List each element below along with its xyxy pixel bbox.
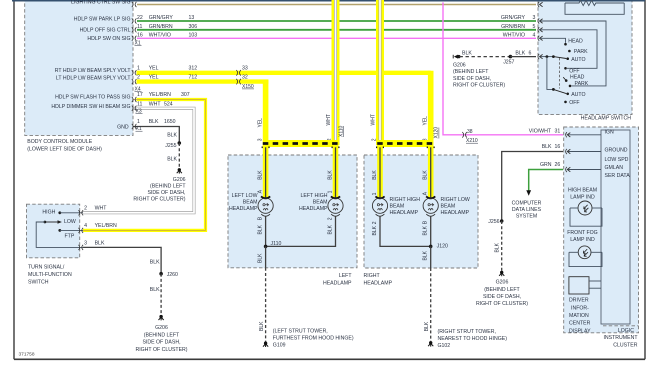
svg-text:HDLP SW FLASH TO PASS SIG: HDLP SW FLASH TO PASS SIG [55,95,130,101]
svg-text:YEL/BRN: YEL/BRN [95,223,117,229]
svg-text:WHT: WHT [326,114,332,125]
switch wiring pin 4 to HEAD deck1 [540,38,566,43]
wire BLK (left box to G109, dashed) [259,268,266,342]
cluster inner box [601,130,639,326]
body control module (BCM) box [25,0,133,153]
svg-text:GND: GND [117,124,129,130]
svg-text:RIGHT: RIGHT [364,273,381,279]
turn signal pin 4 YEL/BRN [79,223,118,233]
svg-text:YEL/BRN: YEL/BRN [149,92,171,98]
wire WHT (right high beam feed, highlighted) [371,0,380,145]
svg-text:BEAM: BEAM [243,200,258,206]
svg-text:(BEHIND LEFT: (BEHIND LEFT [150,184,186,190]
wire BLK (right box to G102, dashed) [424,268,431,341]
wire BLK (X110-2 to left high bulb) [327,145,335,198]
svg-text:YEL: YEL [149,75,159,81]
svg-text:HEADLAMP: HEADLAMP [390,210,419,216]
svg-text:17: 17 [137,92,143,98]
bulb right high beam headlamp [372,196,420,216]
svg-text:BLK: BLK [167,133,177,139]
junction J120 [429,243,448,249]
wire BLK (J120 to right box edge) [423,246,431,268]
svg-text:VIO/WHT: VIO/WHT [529,129,552,135]
svg-text:LOGIC: LOGIC [618,328,634,334]
svg-text:FTP: FTP [65,234,75,240]
svg-text:RT HDLP LW BEAM SPLY VOLT: RT HDLP LW BEAM SPLY VOLT [55,68,132,74]
switch deck 1 wiring (pin 3 to PARK deck2) [540,21,606,86]
svg-text:HEADLAMP: HEADLAMP [299,206,328,212]
svg-text:BEAM: BEAM [390,204,405,210]
svg-text:J255: J255 [165,143,176,149]
svg-text:YEL: YEL [423,116,429,126]
cluster pin serial data [566,157,631,179]
wire WHT 524 (high beam signal) [51,102,194,213]
svg-text:BLK: BLK [423,170,429,180]
wire BLK (X110-3 to left low bulb) [257,145,265,198]
svg-text:HEADLAMP: HEADLAMP [364,280,393,286]
wire BLK (left bulbs to J110) [257,216,335,246]
svg-text:HEADLAMP: HEADLAMP [229,206,258,212]
svg-text:RIGHT OF CLUSTER): RIGHT OF CLUSTER) [476,301,528,307]
svg-text:J120: J120 [437,243,448,249]
svg-text:NEAREST TO HOOD HINGE): NEAREST TO HOOD HINGE) [438,336,508,342]
svg-text:BLK: BLK [424,321,430,331]
svg-text:1650: 1650 [164,119,176,125]
wire YEL 712 (LT low beam supply) [56,75,268,85]
junction J260 [159,272,178,278]
svg-text:SYSTEM: SYSTEM [516,214,537,220]
ground G206 (behind left dash, turn signal) [135,315,187,353]
svg-text:(RIGHT STRUT TOWER,: (RIGHT STRUT TOWER, [438,329,496,335]
junction J255 [165,141,181,149]
svg-text:BEAM: BEAM [441,204,456,210]
connector label X1 (BCM) [135,40,142,46]
wire GRN/BRN 306 (hdlp off signal) [80,24,543,34]
wire BLK (J260 to G206, dashed) [150,274,161,316]
svg-text:WHT: WHT [149,102,162,108]
svg-text:MULTI-FUNCTION: MULTI-FUNCTION [28,272,72,278]
svg-text:524: 524 [164,102,173,108]
svg-text:(BEHIND LEFT: (BEHIND LEFT [453,69,489,75]
svg-text:307: 307 [181,92,190,98]
svg-text:2: 2 [372,221,378,224]
svg-text:G109: G109 [273,343,286,349]
svg-text:SIDE OF DASH,: SIDE OF DASH, [483,294,521,300]
turn signal / multi-function switch box [27,204,80,285]
junction J110 [264,241,282,248]
switch deck 2 contacts [563,74,589,106]
svg-text:LEFT: LEFT [339,273,353,279]
svg-text:HDLP SW PARK LP SIG: HDLP SW PARK LP SIG [74,17,131,23]
svg-text:HDLP SW ON SIG: HDLP SW ON SIG [87,36,130,42]
svg-text:4: 4 [84,223,87,229]
turn signal switch contacts [36,209,83,247]
svg-text:HIGH: HIGH [42,209,55,215]
svg-text:CLUSTER: CLUSTER [613,343,637,349]
svg-text:LEFT HIGH: LEFT HIGH [301,193,328,199]
svg-text:RIGHT LOW: RIGHT LOW [441,197,470,203]
svg-text:312: 312 [189,66,198,72]
svg-text:DATA LINES: DATA LINES [512,207,542,213]
junction J257 [503,55,514,66]
svg-text:(LOWER LEFT SIDE OF DASH): (LOWER LEFT SIDE OF DASH) [27,147,102,153]
svg-text:6: 6 [529,50,532,56]
svg-text:306: 306 [189,24,198,30]
svg-text:1: 1 [137,119,140,125]
svg-text:11: 11 [137,24,142,30]
svg-text:RIGHT OF CLUSTER): RIGHT OF CLUSTER) [135,347,187,353]
svg-text:2: 2 [371,138,377,141]
wire BLK 16 (cluster ground) [502,144,563,221]
wire YEL 312 (RT low beam supply) [55,66,431,76]
connector label X4 (BCM) [135,86,142,92]
svg-text:BLK: BLK [257,224,263,234]
bulb right low beam headlamp [423,196,470,216]
ground G109 (left strut tower) [263,328,354,348]
svg-text:BLK: BLK [423,225,429,235]
svg-text:16: 16 [137,32,143,38]
svg-text:G102: G102 [438,343,451,349]
svg-text:IGN: IGN [605,130,614,136]
wire VIO/WHT (from top, to cluster IGN) [443,2,563,135]
svg-text:BLK: BLK [149,119,159,125]
wire YEL vertical (RT low beam into X120) [423,71,440,146]
svg-text:J260: J260 [167,272,178,278]
headlamp switch box [538,0,632,122]
svg-text:YEL: YEL [149,66,159,72]
svg-text:BLK: BLK [515,50,525,56]
svg-text:BLK: BLK [167,157,177,163]
wire BLK 1650 (BCM ground) [117,119,179,143]
svg-text:PARK: PARK [575,81,589,87]
svg-text:1: 1 [137,66,140,72]
svg-text:INSTRUMENT: INSTRUMENT [603,335,638,341]
svg-text:FURTHEST FROM HOOD HINGE): FURTHEST FROM HOOD HINGE) [273,336,354,342]
wire BLK (J257 to switch pin 6) [510,50,542,59]
svg-text:GRN/GRY: GRN/GRY [501,15,526,21]
front fog indicator lamp [567,230,602,267]
ground G206 (behind left dash, cluster) [476,271,528,308]
svg-text:DISPLAY: DISPLAY [569,328,591,334]
svg-text:J110: J110 [271,241,282,247]
ground G206 (behind left dash, headlamp switch) [453,55,505,89]
svg-text:X110: X110 [338,125,344,137]
svg-text:HDLP DIMMER SW HI BEAM SIG: HDLP DIMMER SW HI BEAM SIG [51,104,130,110]
svg-text:BLK: BLK [259,321,265,331]
svg-text:BEAM: BEAM [313,200,328,206]
turn signal pin 3 BLK [79,241,105,250]
svg-text:WHT/VIO: WHT/VIO [149,32,171,38]
wire BLK (X120-3 to right low bulb) [423,145,431,198]
svg-text:YEL: YEL [257,118,263,128]
svg-text:2: 2 [84,205,87,211]
bulb left low beam headlamp [229,193,273,216]
svg-text:OFF: OFF [569,68,579,74]
wire YEL vertical (LT low beam into X110) [257,80,265,146]
svg-text:16: 16 [555,144,561,150]
svg-text:GRN/BRN: GRN/BRN [149,24,173,30]
switch mechanical link (dashed) [559,58,561,89]
right headlamp box [364,155,479,286]
svg-text:1: 1 [327,190,333,193]
svg-text:32: 32 [242,75,248,81]
junction J256 [488,219,503,225]
svg-text:5: 5 [533,24,536,30]
wire BLK (turn signal ground) [83,247,161,273]
svg-text:3: 3 [533,15,536,21]
svg-text:TURN SIGNAL/: TURN SIGNAL/ [28,264,65,270]
wire WHT/VIO 103 (hdlp sw on signal) [87,32,542,42]
svg-text:SER DATA: SER DATA [605,173,631,179]
svg-text:26: 26 [555,162,561,168]
resistor (headlamp switch, cut off) [565,0,624,14]
svg-text:LOW SPD: LOW SPD [605,157,629,163]
svg-text:HEADLAMP SWITCH: HEADLAMP SWITCH [581,116,632,122]
svg-text:G206: G206 [496,280,509,286]
svg-text:LAMP IND: LAMP IND [570,194,595,200]
svg-text:HDLP OFF SIG CTRL: HDLP OFF SIG CTRL [80,28,131,34]
svg-text:103: 103 [189,32,198,38]
svg-text:BLK: BLK [372,170,378,180]
svg-text:BLK: BLK [150,287,160,293]
svg-text:712: 712 [189,75,198,81]
svg-text:LIGHTING CTRL SW SIG: LIGHTING CTRL SW SIG [71,0,130,6]
svg-text:LAMP IND: LAMP IND [570,237,595,243]
wire BLK (J256 to G206, dashed) [494,221,501,271]
svg-text:SIDE OF DASH,: SIDE OF DASH, [142,340,180,346]
svg-text:HEAD: HEAD [570,74,585,80]
computer data lines system label [512,201,542,220]
svg-text:HEAD: HEAD [568,38,583,44]
wire BLK (X120-2 to right high bulb) [372,145,380,198]
svg-text:WHT: WHT [95,205,108,211]
svg-text:(BEHIND LEFT: (BEHIND LEFT [144,332,180,338]
svg-text:BLK: BLK [257,170,263,180]
svg-text:BLK: BLK [423,250,429,260]
wire TAN (lighting ctrl sw sig) [71,0,543,7]
cluster pin IGN [566,130,614,138]
svg-text:GRN: GRN [540,162,552,168]
switch wiring pin 5 to OFF deck1 [540,30,597,69]
svg-text:(LEFT STRUT TOWER,: (LEFT STRUT TOWER, [273,328,328,334]
svg-text:BLK: BLK [372,225,378,235]
svg-text:BLK: BLK [494,242,500,252]
svg-text:38: 38 [467,129,473,135]
svg-text:3: 3 [84,241,87,247]
svg-text:BLK: BLK [462,50,472,56]
svg-text:BLK: BLK [95,241,105,247]
cluster pin GROUND [566,148,628,155]
svg-text:RIGHT OF CLUSTER): RIGHT OF CLUSTER) [133,197,185,203]
cut-off header bar [12,0,645,2]
svg-text:HEADLAMP: HEADLAMP [441,210,470,216]
wire GRN 26 (serial data) [526,162,563,196]
wire BLK (G206 to J257, dashed) [460,50,511,56]
switch deck 1 contacts [564,38,588,74]
bulb pin labels (top) [257,189,428,195]
svg-text:LEFT LOW: LEFT LOW [232,193,258,199]
svg-text:SWITCH: SWITCH [28,279,49,285]
svg-text:SIDE OF DASH,: SIDE OF DASH, [453,76,491,82]
svg-text:RIGHT HIGH: RIGHT HIGH [390,197,421,203]
jumper X120 (dashed, right headlamp connector) [376,144,435,148]
svg-text:BLK: BLK [150,259,160,265]
wire BLK (right bulbs to J120) [372,216,431,246]
svg-text:G206: G206 [453,63,466,69]
svg-text:G206: G206 [155,325,168,331]
ground G102 (right strut tower) [428,329,507,349]
wire BLK pin 6 common [540,55,566,93]
svg-text:22: 22 [137,15,143,21]
wire BLK (J110 to left box edge) [257,246,265,267]
svg-text:BLK: BLK [327,170,333,180]
svg-text:AUTO: AUTO [571,92,585,98]
bulb left high beam headlamp [299,193,343,216]
wire GRN/GRY 13 (park lamp signal) [74,15,543,24]
connector X210 (inline) [462,132,478,144]
bulb pin labels (bottom) [257,216,428,224]
svg-text:PARK: PARK [574,49,588,55]
turn signal pin 2 WHT [79,205,108,215]
connector label X1 lower (BCM) [136,126,143,132]
svg-text:AUTO: AUTO [571,57,585,63]
svg-text:DRIVER: DRIVER [569,298,589,304]
svg-text:RIGHT OF CLUSTER): RIGHT OF CLUSTER) [453,83,505,89]
svg-text:GROUND: GROUND [605,148,628,154]
svg-text:31: 31 [555,129,561,135]
svg-text:GRN/BRN: GRN/BRN [501,24,525,30]
svg-text:LT HDLP LW BEAM SPLY VOLT: LT HDLP LW BEAM SPLY VOLT [56,76,131,82]
svg-text:GMLAN: GMLAN [605,165,624,171]
svg-text:INFOR-: INFOR- [571,305,589,311]
svg-text:BLK: BLK [542,144,552,150]
svg-text:2: 2 [137,75,140,81]
svg-text:G206: G206 [173,177,186,183]
svg-text:4: 4 [533,32,536,38]
connector X150 (inline, yellow wires) [236,70,254,90]
high beam indicator lamp [568,187,602,226]
svg-text:WHT/VIO: WHT/VIO [503,32,525,38]
svg-text:OFF: OFF [569,100,579,106]
left headlamp box [228,155,357,286]
svg-text:13: 13 [189,15,195,21]
svg-text:CENTER: CENTER [569,321,591,327]
connector label X3 (BCM) [136,109,143,115]
driver information center display [569,277,601,335]
svg-text:BLK: BLK [257,253,263,263]
svg-text:11: 11 [137,102,142,108]
svg-text:J257: J257 [503,60,514,66]
svg-text:MATION: MATION [569,313,589,319]
svg-text:2: 2 [327,217,333,220]
svg-text:1: 1 [372,192,378,195]
svg-text:WHT: WHT [371,114,377,125]
svg-text:SIDE OF DASH,: SIDE OF DASH, [147,190,185,196]
jumper X110 (dashed, left headlamp connector) [262,144,340,148]
svg-text:33: 33 [242,66,248,72]
svg-text:J256: J256 [488,219,499,225]
svg-text:(BEHIND LEFT: (BEHIND LEFT [484,287,520,293]
ground G206 (behind left side of dash, BCM) [133,168,186,203]
wire YEL/BRN 307 (flash to pass) [55,92,205,230]
wire WHT (left high beam feed, highlighted) [326,0,344,145]
svg-text:X120: X120 [434,127,440,139]
wire BLK (J255 to G206) [167,143,179,169]
svg-text:HIGH BEAM: HIGH BEAM [568,187,597,193]
instrument cluster box [564,127,639,349]
svg-text:BODY CONTROL MODULE: BODY CONTROL MODULE [27,139,92,145]
svg-text:371758: 371758 [19,352,35,358]
svg-text:BLK: BLK [327,224,333,234]
svg-text:3: 3 [257,138,263,141]
svg-text:GRN/GRY: GRN/GRY [149,15,174,21]
svg-text:HEADLAMP: HEADLAMP [323,280,352,286]
svg-text:COMPUTER: COMPUTER [512,201,542,207]
svg-text:LOW: LOW [64,219,76,225]
svg-text:FRONT FOG: FRONT FOG [567,230,597,236]
